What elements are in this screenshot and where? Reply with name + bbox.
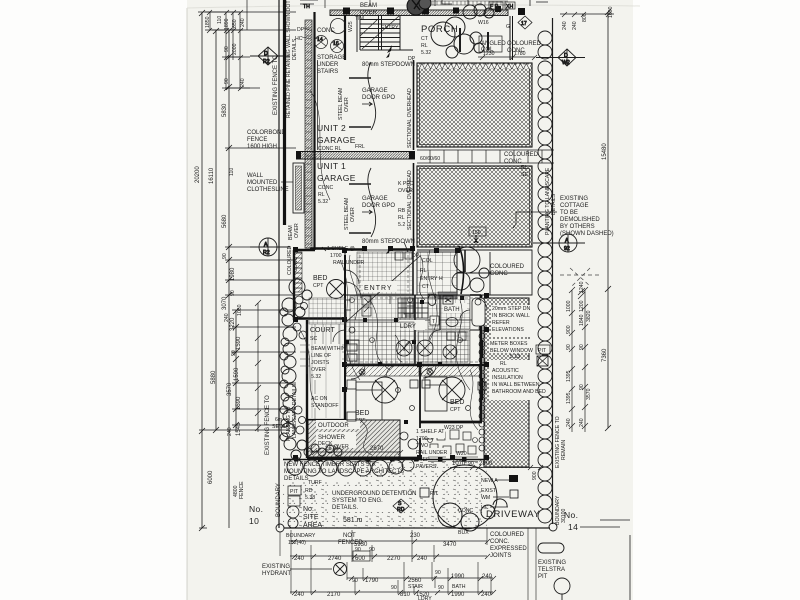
text 240b [227,427,233,436]
text 90b [230,290,236,296]
scan page left edge [186,8,189,600]
bed2 fan [372,377,398,403]
shelf note [322,246,355,259]
text 1980 [230,267,236,281]
bed2 sw [355,410,369,424]
colorbond fence note [247,130,286,150]
rail under note [333,260,364,266]
court grid partial [300,324,344,420]
beam within note [310,344,342,380]
robe hatch bed1 [294,252,302,292]
dims above driveway [450,461,543,480]
detention text [332,491,416,511]
kitchen cabinets [345,296,415,316]
bottom boundary labels [286,533,490,548]
cottage leader [513,212,557,228]
coloured conc strip mid [504,152,539,178]
retained pine retaining wall note [286,0,298,118]
bath tub [472,298,485,326]
pit box right [536,345,550,366]
coloured conc entry label [490,264,525,277]
marker diamond A2 right lower [533,234,585,252]
underground detention note [330,488,402,512]
porch dim 1230 1780 [478,51,537,60]
planting circles left column [280,298,342,460]
frl 60/60/60 [420,156,440,162]
sheet corner lines bottom right [600,520,630,600]
hatch area labels small [398,181,414,228]
entry long leader [346,242,420,322]
outdoor deck [308,420,400,457]
diamond marker top right [518,16,532,29]
services labels [481,475,518,511]
beam over vertical clothesline [288,223,300,240]
conc label lawn [458,508,474,514]
entry court trees [452,247,489,292]
bottom dim row1 [290,547,490,562]
extra door arcs [345,282,487,379]
text existing fence to (west lower) [265,395,271,455]
planting circles column right [538,31,552,523]
top cut tree blob [407,0,431,15]
turf label [305,480,322,501]
bedside tables bed2 [347,380,486,421]
bottom dim row3 [290,585,496,600]
top cut marks right [435,0,548,6]
dimension line 20200 vertical [198,10,240,528]
east wall windows [480,340,483,400]
pit box left [287,486,301,528]
sectional overhead upper [407,88,413,148]
coloured conc expressed joints [490,532,527,559]
dimension chain 5830 etc vertical [225,28,296,528]
deck dims 2670 [310,446,403,455]
bed outlines [356,377,447,420]
entry label top [355,16,399,31]
dimension line 16110 vertical [212,28,240,433]
court tiles [309,298,345,418]
text 90a [222,253,228,259]
leader curves interior [310,90,470,390]
coloured conc vertical left [287,245,299,275]
top left dim cluster lines [205,10,296,91]
beam over label [360,3,378,16]
new fence note [284,462,404,482]
80mm stepdown lower [362,239,415,254]
w25 label [348,21,354,32]
main house outer walls [294,250,487,461]
bed3 fan [439,377,465,403]
text 110 [229,168,235,176]
porch trees [431,4,494,58]
boundary west line [278,0,280,528]
bed3 se [450,399,464,413]
bed1 nw room [313,275,327,289]
dim chain x258 [255,300,261,432]
boundary corner circle SE [549,523,557,531]
boundary east line [552,18,554,524]
bath fixtures [443,296,458,327]
garage block outer walls [296,12,415,250]
text 90c [231,350,237,356]
wm symbols [396,340,457,359]
pantry boxes [362,296,371,316]
crosshatch driveway lower [417,166,532,247]
top plan cut marks [300,0,370,10]
w23 dp label [444,425,464,431]
terrace tree trunk [459,246,464,294]
text 3070 [222,296,228,310]
interior tile ldry [415,330,470,364]
extra vline [246,0,248,30]
right secondary dim chain [566,287,592,432]
garden pavers se [424,430,476,454]
deck labels [316,420,360,448]
ac on standoff [310,394,339,409]
site area [303,506,363,529]
dashed ceiling lines [350,255,480,362]
dp hc labels [295,27,312,42]
text 4800 fence [233,481,245,499]
no 10 [249,504,263,526]
steppers right of deck [400,432,418,449]
left tree circles top court [289,279,312,300]
garage door curve upper [349,62,376,130]
text 1590a [236,336,242,350]
wir hatch bed2 [346,366,419,376]
text 1590b [234,367,240,381]
frl label [355,144,365,150]
existing telstra pit [538,543,566,580]
wir hatch bed3 [421,366,480,376]
scan tone wash [187,0,633,600]
lawn stipple upper band [360,462,487,528]
step dn brick wall note [492,306,530,333]
extra interior dots [345,296,464,424]
ldry label [399,316,439,330]
marker diamond D2 right top [536,49,585,66]
conc label nw [317,19,346,35]
new fence line with posts [283,457,487,462]
garage door gpo upper [362,88,395,106]
storage under stairs label [317,55,346,75]
cluster texts [205,16,246,87]
meter boxes note [490,341,533,354]
more interior leaders [300,255,478,455]
porch area [408,24,458,62]
internal stair [398,298,428,318]
steel beam over upper [338,88,350,120]
no 14 [564,510,620,532]
bottom dim extension lines [280,528,536,600]
text 240t [224,313,230,322]
beam within text [311,346,346,380]
window labels south [358,451,467,457]
porch column line [510,16,513,60]
pit small square lawn [420,488,439,497]
existing fence to remain [555,416,567,468]
text 3220 [230,317,236,331]
storage stair [360,15,413,53]
text 16110 [209,167,215,184]
boundary south line [284,527,550,529]
garage top wall band with posts [330,6,525,16]
extra grid patch hall [418,332,468,362]
driveway area labels [486,509,540,520]
right hatch strip (step dn brick wall) [484,298,529,467]
text 20200 [195,166,201,183]
sawtooth band [419,65,530,69]
text existing fence to (west upper) [273,55,279,115]
text 1060 [237,304,243,316]
interior tile grids kitchen [350,296,415,364]
hall runner grid [346,322,414,364]
party wall hatch fill [296,152,415,160]
wc [428,294,436,306]
bed1 fan circle [327,280,346,299]
porch labels right [478,20,542,54]
top right dim ticks [560,6,614,30]
acoustic insulation note [492,354,546,395]
dimension chain lower left [232,308,296,432]
entry terrace tiled grid [417,252,457,295]
interior tile entry [357,252,413,294]
court area [310,327,335,342]
extra left planting circles [293,296,308,434]
unit 2 garage labels [317,123,356,152]
more small symbols interior [349,252,481,411]
existing cottage note [560,196,614,237]
wall mounted clothesline note [247,163,304,213]
sv diamond [393,499,409,513]
top small boxes FR XH [489,2,515,10]
mid strip between hatches [417,150,554,163]
white label panels on right hatch [489,305,534,400]
text 1545 [236,422,242,436]
interior black dots [293,246,489,460]
planting text right column [545,167,557,235]
1240 dim right [578,281,585,299]
bottom dim row2 [347,570,496,590]
fence planting circle row [287,459,414,476]
extra interior clutter: robe lines bed1 [295,253,302,288]
unit 1 garage labels [317,161,356,205]
door arcs interior [333,270,470,380]
150 box in hatch [469,227,486,243]
top comb band [430,1,508,5]
boundary label west [276,483,282,517]
interior tile bath [428,296,470,329]
80mm stepdown upper [362,52,415,68]
boundary corner circle SW [276,524,284,532]
lawn stipple [283,482,480,528]
scan page top edge [187,5,640,8]
paver circles along east wall [479,301,485,451]
setback line 6000 [199,428,290,531]
entry label main [363,281,397,292]
dashed existing cottage lines [560,268,600,286]
crosshatch driveway upper [417,63,532,147]
shelf note lawn [415,428,450,470]
right main dim line 15480/7360 [602,9,611,431]
deck text [318,423,349,450]
kitchen bench [345,340,359,364]
sectional overhead lower [407,170,413,230]
text 6000 [208,470,214,484]
small power symbols [318,298,478,443]
6m setback [272,417,297,430]
south wall windows [352,457,478,462]
text 5880 [211,370,217,384]
downpipe ladder strip [305,20,312,248]
text 5830 [222,103,228,117]
marker diamond R2 left lower [250,238,290,256]
planting text left [286,383,298,441]
text 3570L [227,382,233,396]
terrace labels [412,253,443,290]
boundary label east [555,495,567,525]
existing hydrant [262,563,347,578]
retaining wall thick [283,0,286,225]
pole circle bottom [554,578,570,600]
steel beam over lower [344,198,356,230]
marker diamond R2 left top [250,47,290,65]
garage door gpo lower [362,196,395,214]
big tree lawn [433,465,507,531]
bath label [443,303,467,313]
entry mat [438,292,457,299]
terrace concrete outline [417,250,532,295]
garage door curve lower [349,168,376,237]
text 5680 [222,214,228,228]
text 1590c [236,396,242,410]
meter circles nw [315,36,344,53]
